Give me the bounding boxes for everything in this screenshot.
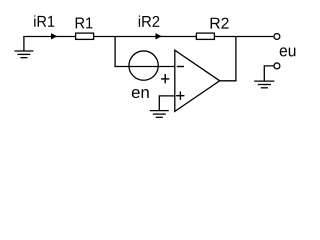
minus sign (inverting input) (177, 66, 184, 68)
current arrow iR2 (156, 33, 162, 39)
wire (feedback drop from node between R1 and R2 to noise source) (115, 37, 175, 67)
terminal (output, top) (274, 34, 280, 40)
terminal (output, bottom) (274, 63, 280, 69)
label iR1 (34, 15, 54, 26)
plus sign (non-inverting input) (176, 92, 184, 100)
wire (top rail from input ground to output terminal) (23, 36, 273, 38)
noise source en (circle) (129, 51, 158, 80)
resistor R1 (76, 33, 94, 39)
label R1 (76, 18, 93, 29)
label en (132, 89, 149, 98)
polarity plus of en (161, 74, 169, 83)
wire (non-inverting input to ground) (159, 96, 175, 111)
label iR2 (139, 15, 160, 26)
wire (bottom terminal to its ground) (264, 66, 273, 81)
label eu (280, 47, 296, 56)
resistor R2 (196, 33, 214, 39)
ground (input, top-left) (14, 37, 33, 58)
ground (output terminal) (254, 81, 274, 88)
current arrow iR1 (51, 33, 57, 39)
ground (op-amp non-inverting input) (150, 111, 169, 118)
wire (op-amp output up to top rail) (220, 37, 236, 81)
op-amp U1 (175, 50, 220, 111)
label R2 (211, 18, 229, 29)
